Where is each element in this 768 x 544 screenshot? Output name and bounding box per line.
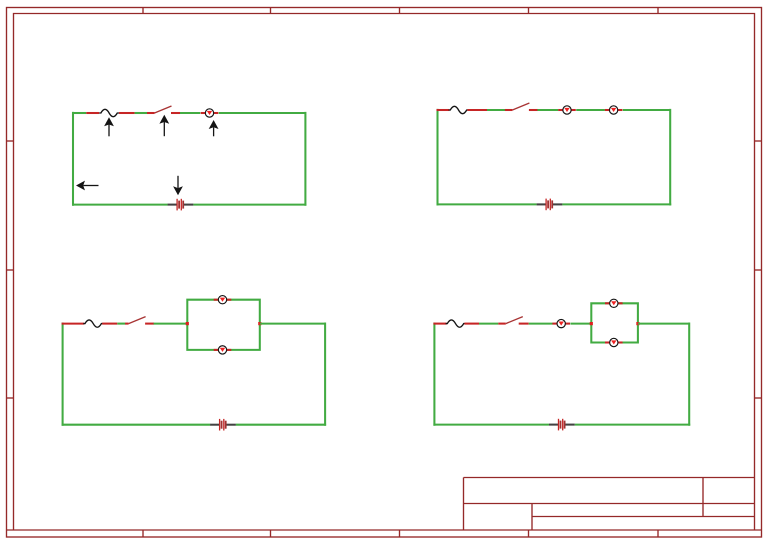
circuit 4 fuse F4 [446,320,466,327]
border zone ticks top edge [143,7,658,13]
circuit 4 lamp L6 [552,319,570,327]
circuit 4 wire bottom segment a [433,424,549,426]
circuit 2 wire bottom segment b [562,203,671,205]
circuit 2 lamp L2 [558,106,576,114]
circuit 4 wire top segment d [638,323,689,325]
circuit 1 annotation arrow at lamp [209,120,219,136]
circuit 1 wire bottom segment a [72,204,168,206]
circuit 2 fuse lead right [467,109,487,111]
circuit 1 annotation arrow at switch [159,115,169,136]
circuit 1 annotation arrow at fuse [104,117,114,136]
circuit 2 wire top segment d [623,109,670,111]
circuit 1 fuse lead right [119,112,135,114]
circuit 2 wire top segment b [537,109,558,111]
circuit 3 wire bottom segment a [62,424,211,426]
circuit 3 parallel branch frame [187,300,259,350]
circuit 4 node junction right [636,322,639,325]
circuit 3 wire left side [62,323,64,426]
circuit 3 fuse lead left [62,323,85,325]
circuit 4 wire top segment c [570,323,591,325]
circuit 1 wire left side [72,112,74,206]
circuit 3 lamp L5 bottom branch [214,346,232,354]
circuit 1 battery B1 [168,199,194,211]
circuit 4 fuse lead left [433,323,446,325]
circuit 4 fuse lead right [464,323,479,325]
circuit 4 lamp L8 bottom branch [605,338,623,346]
circuit 1 fuse F1 [99,109,119,116]
circuit 2 wire right side [669,109,671,206]
circuit 2 battery B2 [537,199,563,211]
circuit 2 fuse F2 [449,106,469,113]
title block [464,478,755,531]
circuit 1 wire top segment a [72,112,86,114]
circuit 1 switch SW1 [147,106,180,113]
circuit 2 fuse lead left [437,109,450,111]
circuit 2 lamp L3 [605,106,623,114]
circuit 4 wire bottom segment b [575,424,690,426]
border zone ticks bottom edge [143,530,658,537]
circuit 4 battery B4 [549,419,575,431]
circuit 3 fuse F3 [83,320,103,327]
circuit 1 annotation arrow at left wire [76,181,99,191]
circuit 1 wire bottom segment b [193,204,306,206]
circuit 3 wire right side [324,323,326,426]
circuit 4 parallel branch frame [591,303,638,342]
circuit 3 fuse lead right [102,323,117,325]
circuit 2 switch SW2 [505,103,538,110]
circuit 2 wire top segment c [576,109,605,111]
circuit 2 wire top segment a [487,109,505,111]
circuit 2 wire left side [436,109,438,206]
circuit 3 wire bottom segment b [236,424,326,426]
circuit 4 wire top segment b [529,323,553,325]
circuit 4 node junction left [590,322,593,325]
circuit 1 fuse lead left [86,112,99,114]
border zone ticks left edge [7,141,14,398]
circuit 3 node junction left [186,322,189,325]
border zone ticks right edge [755,141,762,398]
circuit 3 node junction right [258,322,261,325]
circuit 1 wire top segment d [219,112,306,114]
circuit 4 lamp L7 top branch [605,299,623,307]
circuit 3 switch SW3 [125,317,154,324]
circuit 1 wire top segment c [180,112,200,114]
circuit 3 lamp L4 top branch [214,296,232,304]
circuit 4 wire right side [688,323,690,426]
circuit 1 wire top segment b [135,112,147,114]
circuit 3 wire top segment b [154,323,188,325]
circuit 2 wire bottom segment a [437,203,537,205]
circuit 3 battery B3 [210,419,236,431]
circuit 1 lamp L1 [201,109,219,117]
circuit 4 wire top segment a [479,323,498,325]
circuit 4 switch SW4 [498,317,528,324]
circuit 3 wire top segment a [117,323,125,325]
circuit 1 annotation arrow at battery [173,176,183,196]
circuit 4 wire left side [433,323,435,426]
circuit 1 wire right side [304,112,306,206]
circuit 3 wire top segment c [260,323,325,325]
